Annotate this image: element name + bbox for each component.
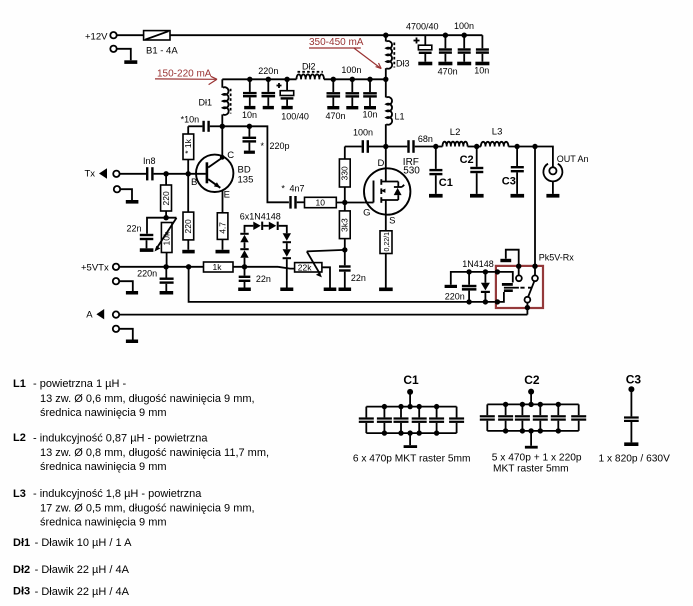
- svg-text:średnica nawinięcia 9 mm: średnica nawinięcia 9 mm: [40, 461, 167, 473]
- capacitor 100n (mid bank right): [346, 79, 360, 106]
- node junction top rail Dl3: [383, 33, 388, 38]
- label legend Dl2: [13, 564, 130, 576]
- transistor Q1 BD135: [196, 155, 233, 192]
- node junction C2: [474, 144, 479, 149]
- ground: [429, 194, 443, 198]
- label legend Dl1: [13, 537, 132, 549]
- svg-text:10n: 10n: [242, 110, 257, 120]
- svg-text:C3: C3: [502, 176, 516, 188]
- svg-text:22n: 22n: [351, 273, 366, 283]
- svg-text:1N4148: 1N4148: [462, 259, 494, 269]
- node junction 3k3 bottom: [342, 247, 347, 252]
- node junction: [350, 77, 355, 82]
- capacitor 22n bias: [140, 234, 154, 249]
- node junction: [266, 77, 271, 82]
- resistor 220 base to ground: [183, 174, 194, 250]
- ground: [445, 285, 457, 288]
- node junction relay return tap: [186, 264, 191, 269]
- svg-text:220n: 220n: [137, 269, 157, 279]
- svg-text:Dł3: Dł3: [396, 59, 410, 69]
- capacitor C3 820p: [624, 389, 639, 442]
- svg-text:220: 220: [161, 191, 171, 205]
- diode 1N4148 flyback: [481, 272, 490, 302]
- node junction collector: [220, 155, 225, 160]
- svg-text:- Dławik 22 µH / 4A: - Dławik 22 µH / 4A: [35, 564, 130, 576]
- svg-text:L2: L2: [13, 432, 26, 444]
- node junction rail mid: [383, 77, 388, 82]
- node junction top rail: [462, 33, 467, 38]
- diode chain top leg: [253, 222, 286, 234]
- node junction base left: [163, 171, 168, 176]
- svg-text:L3: L3: [13, 488, 26, 500]
- relay contact circle bottom: [525, 297, 531, 303]
- terminal +12V ground side: [110, 46, 116, 52]
- svg-text:135: 135: [238, 174, 254, 185]
- capacitor 22n gate: [339, 250, 351, 288]
- svg-text:L2: L2: [450, 127, 461, 138]
- svg-text:Dł2: Dł2: [13, 564, 30, 576]
- wire rail y79 right: [324, 78, 386, 80]
- svg-text:5 x 470p + 1 x 220p: 5 x 470p + 1 x 220p: [492, 453, 582, 464]
- diode chain left leg: [240, 226, 253, 267]
- svg-text:4.7: 4.7: [218, 222, 228, 234]
- svg-text:Dł1: Dł1: [13, 537, 30, 549]
- ground: [160, 291, 174, 295]
- wire wiper to 3k3: [307, 250, 345, 252]
- annotation 350-450 mA: [309, 37, 381, 68]
- ground: [339, 288, 352, 292]
- svg-text:- indukcyjność 1,8 µH - powie: - indukcyjność 1,8 µH - powietrzna: [33, 488, 202, 500]
- terminal +5VTx: [113, 264, 119, 270]
- ground: [438, 62, 452, 66]
- svg-text:22n: 22n: [256, 274, 271, 284]
- relay contact circle left: [516, 275, 522, 281]
- connector OUT An: [543, 147, 562, 194]
- node junction: [483, 299, 488, 304]
- transistor U2 IRF530 mosfet: [364, 147, 410, 215]
- svg-text:530: 530: [403, 166, 420, 177]
- label legend Dl3: [13, 586, 130, 598]
- label legend L2: [13, 432, 269, 473]
- ground: [244, 106, 255, 109]
- wire emitter: [222, 190, 224, 213]
- wire terminal to ground: [117, 49, 131, 61]
- relay contact circle right: [532, 275, 538, 281]
- svg-text:Dł3: Dł3: [13, 586, 30, 598]
- wire rail y79 left: [222, 78, 296, 80]
- capacitor 100n drain coupling: [345, 140, 386, 153]
- svg-text:220p: 220p: [270, 141, 290, 151]
- svg-text:C1: C1: [439, 177, 453, 189]
- wire C1 stem: [409, 392, 411, 407]
- svg-text:150-220 mA: 150-220 mA: [157, 68, 212, 79]
- svg-text:10: 10: [316, 197, 326, 207]
- resistor 1k: [204, 262, 279, 272]
- node junction C3: [514, 144, 519, 149]
- wire to ground: [119, 329, 133, 340]
- ground: [379, 288, 393, 292]
- node junction top rail: [443, 33, 448, 38]
- ground: [525, 446, 538, 449]
- potentiometer 22k: [295, 251, 330, 287]
- capacitor 22n clamp: [239, 267, 251, 288]
- label legend L1: [13, 378, 255, 419]
- relay contact common from output: [532, 264, 537, 276]
- inductor Dl2: [296, 72, 323, 80]
- capacitor C3: [511, 147, 524, 194]
- svg-text:średnica nawinięcia 9 mm: średnica nawinięcia 9 mm: [40, 516, 167, 528]
- svg-text:S: S: [389, 216, 395, 227]
- ground: [126, 340, 138, 344]
- ground: [324, 288, 337, 292]
- svg-text:13 zw. Ø 0,6 mm, długość nawin: 13 zw. Ø 0,6 mm, długość nawinięcia 9 mm…: [40, 393, 255, 405]
- resistor 330: [339, 147, 350, 203]
- svg-text:E: E: [224, 189, 230, 200]
- svg-text:C3: C3: [626, 373, 642, 387]
- inductor Dl3: [386, 35, 395, 79]
- resistor 10 gate series: [305, 197, 365, 207]
- ground: [457, 62, 471, 66]
- svg-text:Dł2: Dł2: [302, 61, 316, 71]
- node junction relay tap: [532, 144, 537, 149]
- wire Tx to In8: [120, 173, 146, 175]
- svg-text:- Dławik 22 µH / 4A: - Dławik 22 µH / 4A: [35, 586, 130, 598]
- wire collector: [221, 126, 223, 157]
- ground: [263, 106, 274, 109]
- svg-text:A: A: [86, 309, 93, 320]
- svg-text:0,22/1: 0,22/1: [384, 232, 391, 252]
- wire crossing jog: [278, 267, 295, 269]
- terminal Tx: [113, 171, 119, 177]
- node junction pot bottom: [163, 264, 168, 269]
- node Tx input arrow: [99, 168, 107, 179]
- svg-text:B: B: [191, 177, 197, 188]
- ground: [126, 200, 139, 204]
- svg-text:G: G: [363, 208, 370, 219]
- capacitor In8: [146, 167, 166, 180]
- svg-text:4700/40: 4700/40: [406, 22, 439, 32]
- svg-text:6 x 470p MKT raster 5mm: 6 x 470p MKT raster 5mm: [353, 453, 471, 464]
- terminal Tx ground side: [114, 186, 120, 192]
- svg-text:B1 - 4A: B1 - 4A: [146, 45, 178, 56]
- svg-text:Dł1: Dł1: [199, 98, 213, 108]
- node junction 220p tap: [247, 124, 252, 129]
- node junction C1: [433, 144, 438, 149]
- annotation 150-220 mA: [155, 68, 217, 84]
- relay coil: [497, 272, 519, 302]
- node junction: [466, 299, 471, 304]
- svg-text:220n: 220n: [258, 66, 278, 76]
- capacitor 220n (mid bank): [262, 79, 276, 106]
- svg-text:1 x 820p / 630V: 1 x 820p / 630V: [599, 453, 671, 464]
- capacitor 68n: [386, 140, 436, 153]
- capacitor bank C1 6x470p: [359, 404, 464, 445]
- svg-text:100/40: 100/40: [281, 111, 309, 121]
- svg-text:* 1k: * 1k: [183, 138, 193, 153]
- capacitor 100n (top bank): [439, 35, 452, 62]
- svg-text:D: D: [378, 158, 385, 169]
- svg-text:4n7: 4n7: [290, 184, 305, 194]
- svg-text:470n: 470n: [326, 111, 346, 121]
- svg-text:C: C: [227, 150, 234, 161]
- ground: [475, 62, 489, 66]
- svg-text:Tx: Tx: [85, 169, 96, 180]
- node junction collector top: [220, 124, 225, 129]
- node C1 terminal: [407, 389, 413, 395]
- svg-text:C1: C1: [403, 373, 419, 387]
- ground: [470, 194, 484, 198]
- svg-text:*: *: [261, 141, 265, 151]
- svg-text:10n: 10n: [474, 66, 489, 76]
- node junction coil top: [495, 269, 500, 274]
- svg-text:17 zw. Ø 0,5 mm, długość nawin: 17 zw. Ø 0,5 mm, długość nawinięcia 9 mm…: [40, 502, 255, 514]
- svg-text:1k: 1k: [213, 262, 223, 272]
- svg-text:In8: In8: [143, 156, 156, 166]
- wire +12V to fuse: [117, 34, 144, 36]
- capacitor 220n relay: [462, 272, 477, 302]
- svg-text:Pk5V-Rx: Pk5V-Rx: [539, 253, 575, 263]
- inductor Dl1: [222, 79, 230, 126]
- svg-text:- indukcyjność 0,87 µH - powi: - indukcyjność 0,87 µH - powietrzna: [33, 432, 208, 444]
- relay Pk5V-Rx box: [496, 266, 543, 308]
- wire to ground: [119, 281, 133, 291]
- svg-text:MKT raster 5mm: MKT raster 5mm: [493, 463, 569, 474]
- wire top +12V rail: [170, 34, 482, 36]
- relay contact NC stub: [500, 250, 521, 276]
- ground: [140, 248, 154, 252]
- node junction coil bottom: [495, 299, 500, 304]
- ground: [511, 194, 525, 198]
- svg-text:220: 220: [183, 219, 193, 233]
- wire relay return rail: [189, 267, 496, 302]
- node C2 terminal: [528, 389, 534, 395]
- svg-text:68n: 68n: [418, 134, 433, 144]
- capacitor C1: [429, 147, 442, 194]
- svg-text:C2: C2: [460, 154, 474, 166]
- svg-text:100n: 100n: [353, 127, 373, 137]
- svg-text:C2: C2: [524, 373, 540, 387]
- node junction gate: [342, 200, 347, 205]
- resistor *1k feedback: [183, 126, 194, 174]
- capacitor *220p: [243, 126, 257, 150]
- ground: [364, 106, 376, 109]
- svg-text:220n: 220n: [445, 292, 465, 302]
- capacitor *4n7: [289, 196, 304, 209]
- svg-text:+12V: +12V: [85, 32, 108, 43]
- ground: [546, 194, 559, 198]
- capacitor bank C2 5x470p 1x220p: [480, 402, 586, 446]
- node junction bias: [163, 215, 168, 220]
- terminal A ground side: [113, 326, 119, 332]
- svg-text:13 zw. Ø 0,8 mm, długość nawin: 13 zw. Ø 0,8 mm, długość nawinięcia 11,7…: [40, 447, 269, 459]
- svg-text:*10n: *10n: [181, 115, 200, 125]
- wire relay coil top rail: [451, 272, 498, 285]
- node junction: [247, 77, 252, 82]
- svg-text:330: 330: [340, 166, 350, 180]
- ground: [282, 106, 293, 109]
- ground: [327, 106, 339, 109]
- relay actuator dashed link: [520, 287, 531, 289]
- node junction base right: [186, 171, 191, 176]
- fuse B1 4A: [144, 31, 170, 40]
- ground: [244, 151, 255, 154]
- ground: [216, 250, 230, 254]
- svg-text:L1: L1: [13, 378, 26, 390]
- node junction: [284, 77, 289, 82]
- label legend L3: [13, 488, 255, 529]
- ground: [124, 60, 137, 64]
- wire bias bracket: [147, 218, 177, 234]
- wire output node to relay: [534, 147, 536, 267]
- svg-text:10n: 10n: [363, 110, 378, 120]
- node C3 terminal: [628, 386, 634, 392]
- wire C2 stem: [530, 392, 532, 405]
- terminal A: [113, 311, 119, 317]
- svg-text:22n: 22n: [127, 224, 142, 234]
- resistor 0.22/1 source: [380, 215, 392, 288]
- svg-text:3k3: 3k3: [340, 218, 350, 232]
- wire relay pole down: [526, 303, 528, 315]
- node junction drain: [383, 144, 388, 149]
- svg-text:L3: L3: [492, 126, 503, 137]
- ground: [346, 106, 358, 109]
- svg-text:*: *: [281, 184, 285, 194]
- svg-text:średnica nawinięcia 9 mm: średnica nawinięcia 9 mm: [40, 407, 167, 419]
- ground: [238, 288, 251, 292]
- ground: [182, 250, 194, 254]
- resistor 3k3: [339, 203, 350, 250]
- wire +5VTx line: [119, 266, 203, 268]
- node junction: [466, 269, 471, 274]
- capacitor *10n feedback: [188, 121, 222, 132]
- ground: [404, 445, 418, 448]
- ground: [418, 62, 432, 66]
- ground: [280, 288, 293, 292]
- capacitor 10n (mid bank right): [363, 79, 377, 106]
- svg-text:- Dławik 10 µH / 1 A: - Dławik 10 µH / 1 A: [35, 537, 132, 549]
- node junction: [367, 77, 372, 82]
- wire base line: [166, 173, 206, 175]
- wire A line to relay: [119, 314, 527, 316]
- relay switch arm: [528, 281, 534, 297]
- wire to ground: [120, 189, 132, 200]
- diode chain right leg: [283, 233, 291, 287]
- svg-text:470n: 470n: [438, 66, 458, 76]
- ground: [624, 442, 638, 446]
- inductor L2: [436, 142, 477, 147]
- capacitor 10n (mid bank left): [243, 79, 257, 106]
- capacitor 4700/40 electrolytic: [414, 35, 432, 62]
- wire collector node to coupling: [222, 126, 289, 202]
- terminal +12V: [110, 32, 116, 38]
- potentiometer 10k: [155, 218, 177, 267]
- inductor L3: [477, 142, 552, 147]
- terminal +5VTx ground side: [113, 278, 119, 284]
- svg-text:22k: 22k: [298, 262, 312, 272]
- svg-text:350-450 mA: 350-450 mA: [309, 37, 364, 48]
- resistor 4.7 emitter: [217, 213, 228, 250]
- svg-text:100n: 100n: [454, 21, 474, 31]
- capacitor 10n (top bank): [476, 35, 489, 62]
- inductor L1: [386, 79, 392, 146]
- capacitor 220n 5V rail: [160, 267, 174, 291]
- capacitor 470n (mid bank right): [327, 79, 341, 106]
- node junction relay pole: [525, 305, 530, 310]
- svg-text:6x1N4148: 6x1N4148: [240, 212, 281, 222]
- capacitor 470n (top bank): [458, 35, 471, 62]
- svg-text:L1: L1: [395, 112, 405, 122]
- svg-text:- powietrzna 1 µH -: - powietrzna 1 µH -: [33, 378, 126, 390]
- capacitor 100/40 electrolytic: [277, 79, 294, 106]
- svg-text:+5VTx: +5VTx: [81, 262, 109, 273]
- node junction bias clamp: [242, 264, 247, 269]
- ground: [126, 291, 138, 295]
- node junction: [331, 77, 336, 82]
- node A input arrow: [96, 309, 104, 319]
- resistor 220 base shunt: [161, 174, 172, 218]
- node junction: [483, 269, 488, 274]
- svg-text:100n: 100n: [341, 65, 361, 75]
- capacitor C2: [470, 147, 483, 194]
- svg-text:OUT An: OUT An: [557, 154, 589, 164]
